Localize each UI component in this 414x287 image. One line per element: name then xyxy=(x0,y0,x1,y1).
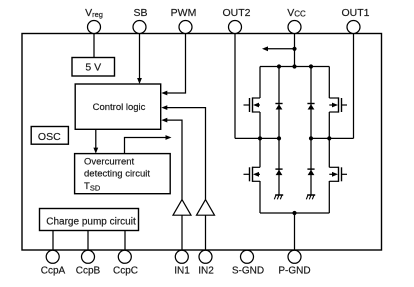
transistor Q4 (lower-right MOSFET) xyxy=(329,167,347,182)
svg-text:Overcurrent: Overcurrent xyxy=(84,157,135,168)
pin CcpC xyxy=(113,250,138,276)
junction dot Vcc bus left diode xyxy=(277,64,281,68)
wire OUT1 down to output node bus xyxy=(353,34,355,139)
svg-text:S-GND: S-GND xyxy=(232,266,264,277)
wire IN2 pin to buffer xyxy=(205,215,207,250)
pin Vcc xyxy=(287,7,306,34)
pin IN2 xyxy=(198,250,214,276)
ground (right) xyxy=(306,195,315,199)
pin CcpA xyxy=(41,250,66,276)
wire lower diode line (left) to ground xyxy=(278,138,280,195)
block Control logic U1 xyxy=(75,84,161,129)
IC outline box xyxy=(22,34,382,251)
wire upper diode line (left) xyxy=(278,67,280,139)
pin P-GND xyxy=(278,250,310,276)
wire bottom bus xyxy=(260,212,329,214)
junction dot Vcc/flow arrow xyxy=(292,47,296,51)
diode D1 (upper-left body diode) xyxy=(275,104,282,110)
block Charge pump circuit xyxy=(40,209,139,231)
wire upper-right drain xyxy=(328,67,330,99)
transistor Q2 (upper-right MOSFET) xyxy=(329,97,347,112)
svg-text:Control logic: Control logic xyxy=(93,102,146,113)
wire upper-left source to mid bus xyxy=(259,112,261,138)
ground (left) xyxy=(274,195,283,199)
junction dot mid bus right diode xyxy=(309,136,313,140)
wire output node bus OUT1 (right) xyxy=(311,137,354,139)
wire bottom bus to P-GND xyxy=(294,213,296,250)
wire lower-left source to bottom bus xyxy=(259,181,261,213)
wire Overcurrent circuit to bridge (right arrow) xyxy=(125,135,172,154)
svg-text:VCC: VCC xyxy=(287,7,306,19)
pin PWM xyxy=(171,7,197,34)
current flow arrow (left) from Vcc line xyxy=(262,46,295,51)
block OSC xyxy=(31,127,68,145)
pin Vreg xyxy=(85,7,103,34)
svg-text:CcpC: CcpC xyxy=(113,266,138,277)
wire upper diode line (right) xyxy=(310,67,312,139)
junction dot Vcc bus supply xyxy=(292,64,296,68)
svg-text:OUT2: OUT2 xyxy=(222,7,250,19)
wire lower diode line (right) to ground xyxy=(310,138,312,195)
wire Vreg to 5V box xyxy=(93,34,95,58)
junction dot bottom bus xyxy=(292,211,296,215)
wire upper-left drain xyxy=(259,67,261,99)
wire IN1 buffer to Control logic xyxy=(161,118,182,200)
wire IN2 buffer to Control logic xyxy=(161,105,205,199)
svg-text:TSD: TSD xyxy=(84,181,101,193)
block Overcurrent detecting circuit TSD xyxy=(75,154,171,194)
wire Control logic to Overcurrent circuit xyxy=(93,129,98,153)
svg-text:CcpB: CcpB xyxy=(76,266,101,277)
junction dot mid bus right MOSFET xyxy=(327,136,331,140)
diode D2 (upper-right body diode) xyxy=(307,104,314,110)
wire OUT2 down to output node bus xyxy=(234,34,236,139)
svg-text:IN1: IN1 xyxy=(174,266,190,277)
wire charge pump to CcpB xyxy=(87,231,89,251)
pin IN1 xyxy=(174,250,190,276)
svg-text:P-GND: P-GND xyxy=(278,266,310,277)
diode D4 (lower-right body diode) xyxy=(307,169,314,175)
junction dot mid bus left diode xyxy=(277,136,281,140)
pin SB xyxy=(133,7,148,34)
wire IN1 pin to buffer xyxy=(181,215,183,250)
svg-text:SB: SB xyxy=(133,7,147,19)
regulator 5V box xyxy=(72,58,115,77)
pin CcpB xyxy=(76,250,101,276)
pin OUT2 xyxy=(222,7,250,34)
input buffer IN1 (triangle) xyxy=(173,200,191,216)
wire output node bus OUT2 (left) xyxy=(235,137,279,139)
wire SB to Control logic xyxy=(137,34,142,85)
pin S-GND xyxy=(232,250,264,276)
wire Vcc bus xyxy=(260,66,329,68)
junction dot Vcc bus right diode xyxy=(309,64,313,68)
wire lower-right drain from mid bus xyxy=(328,138,330,167)
diode D3 (lower-left body diode) xyxy=(275,169,282,175)
svg-text:IN2: IN2 xyxy=(198,266,214,277)
wire charge pump to CcpA xyxy=(52,231,54,251)
wire Vcc down to Vcc bus xyxy=(294,34,296,67)
svg-text:PWM: PWM xyxy=(171,7,197,19)
wire lower-left drain from mid bus xyxy=(259,138,261,167)
transistor Q3 (lower-left MOSFET) xyxy=(244,167,261,182)
transistor Q1 (upper-left MOSFET) xyxy=(244,97,261,112)
wire upper-right source to mid bus xyxy=(328,112,330,138)
svg-text:detecting circuit: detecting circuit xyxy=(84,169,150,180)
wire PWM to Control logic xyxy=(161,34,185,96)
svg-text:OUT1: OUT1 xyxy=(341,7,369,19)
pin OUT1 xyxy=(341,7,369,34)
wire charge pump to CcpC xyxy=(124,231,126,251)
input buffer IN2 (triangle) xyxy=(197,200,215,216)
junction dot mid bus left MOSFET xyxy=(258,136,262,140)
svg-text:5 V: 5 V xyxy=(85,62,101,74)
svg-text:OSC: OSC xyxy=(38,131,61,143)
wire lower-right source to bottom bus xyxy=(328,181,330,213)
svg-text:Charge pump circuit: Charge pump circuit xyxy=(46,217,136,228)
svg-text:CcpA: CcpA xyxy=(41,266,66,277)
